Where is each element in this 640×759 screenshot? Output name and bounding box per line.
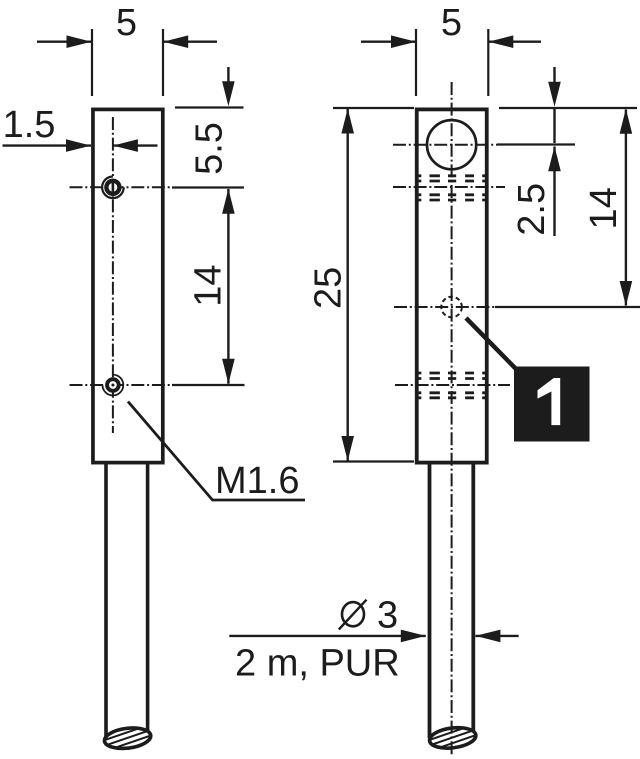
- svg-text:2 m, PUR: 2 m, PUR: [235, 642, 400, 684]
- svg-text:1.5: 1.5: [3, 104, 56, 146]
- svg-text:5: 5: [441, 2, 462, 44]
- svg-text:25: 25: [308, 267, 350, 309]
- svg-text:M1.6: M1.6: [215, 460, 299, 502]
- svg-text:5.5: 5.5: [188, 122, 230, 175]
- svg-text:5: 5: [116, 2, 137, 44]
- svg-text:14: 14: [187, 264, 229, 306]
- svg-text:2.5: 2.5: [511, 183, 553, 236]
- svg-text:3: 3: [377, 595, 398, 637]
- svg-text:14: 14: [583, 187, 625, 229]
